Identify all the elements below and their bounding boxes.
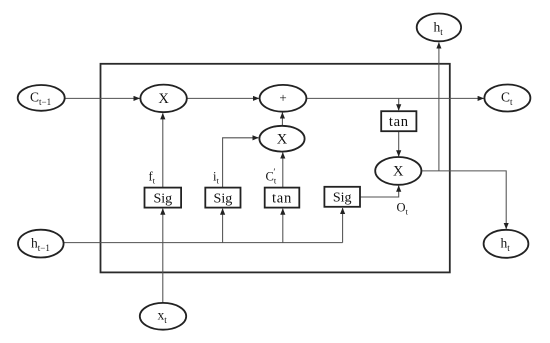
node x(t) input ellipse	[140, 303, 186, 330]
wire Sig2 to X2	[223, 138, 259, 188]
gate Sig1 box	[145, 188, 182, 208]
svg-text:Sig: Sig	[214, 191, 233, 206]
svg-text:tan: tan	[389, 114, 409, 130]
wire branch down into tan (right)	[398, 98, 400, 110]
label O(t)	[397, 200, 409, 216]
op X2 input-gate multiply ellipse	[259, 126, 304, 152]
svg-text:X: X	[277, 132, 288, 148]
wire tan (mid) to X2	[282, 153, 284, 188]
wire C(t-1) to X1	[65, 97, 140, 99]
node h(t) top output ellipse	[417, 14, 461, 42]
wire x(t) to Sig1	[162, 209, 164, 303]
wire X2 to plus	[281, 113, 283, 126]
LSTM cell boundary rectangle	[101, 64, 450, 273]
op plus ellipse	[260, 85, 307, 112]
wire h(t-1) bus	[64, 242, 343, 244]
wire branch up to h(t) top	[438, 43, 440, 171]
wire X3 to h(t) bottom-right	[421, 171, 506, 229]
wire Sig1 to X1	[162, 113, 164, 187]
label C(t)'	[266, 168, 277, 186]
label f(t)	[149, 170, 156, 186]
svg-text:X: X	[393, 164, 404, 180]
gate tan (right) box	[381, 111, 416, 131]
svg-text:+: +	[279, 90, 286, 105]
wire plus to Ct output	[306, 97, 483, 99]
gate Sig3 box	[324, 187, 360, 207]
svg-text:tan: tan	[272, 190, 292, 206]
svg-text:Ct′: Ct′	[266, 168, 277, 186]
node h(t) bottom-right output ellipse	[484, 230, 529, 258]
svg-text:X: X	[158, 91, 169, 107]
op X3 output-gate multiply ellipse	[375, 157, 421, 185]
svg-text:Sig: Sig	[333, 191, 352, 206]
wire branch to tan (mid)	[282, 209, 284, 243]
op X1 forget-gate multiply ellipse	[140, 85, 186, 113]
wire branch to Sig2	[222, 209, 224, 243]
node h(t-1) input ellipse	[18, 230, 64, 258]
node C(t) output ellipse	[484, 85, 530, 112]
wire branch to Sig3	[342, 208, 344, 243]
wire Sig3 to X3	[360, 186, 398, 197]
wire tan (right) to X3	[398, 132, 400, 157]
label i(t)	[213, 170, 219, 186]
wire X1 to plus	[187, 97, 259, 99]
gate tan (mid) box	[265, 188, 300, 208]
svg-text:Sig: Sig	[153, 191, 172, 206]
node C(t-1) input ellipse	[18, 85, 65, 111]
gate Sig2 box	[205, 188, 240, 208]
